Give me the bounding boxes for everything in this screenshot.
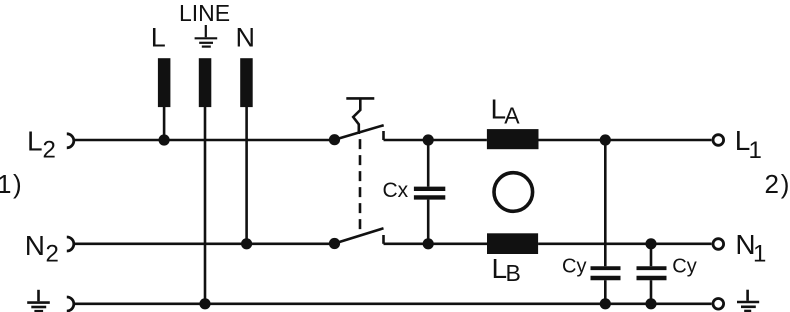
label Cx — [383, 179, 409, 202]
ground symbol (LINE earth, top) — [195, 25, 218, 47]
terminal circle L1 — [713, 135, 724, 146]
fuse/terminal bar PE — [199, 58, 212, 107]
junction dot Cx top — [423, 134, 434, 145]
wire switch a to inductor LA — [384, 139, 487, 142]
wire LA to L1 terminal — [539, 139, 712, 142]
fuse/terminal bar N — [240, 58, 253, 107]
wire switch b to inductor LB — [384, 243, 488, 246]
ground symbol bottom left — [27, 290, 50, 311]
svg-text:2: 2 — [46, 241, 59, 268]
junction dot Cy2 ground — [645, 298, 656, 309]
junction dot switch pole a — [329, 134, 340, 145]
capacitor Cy1 — [591, 268, 621, 278]
fuse/terminal bar L — [158, 58, 171, 107]
junction dot Cy2 top on N line — [645, 238, 656, 249]
wire bar PE down to ground bus — [204, 107, 207, 304]
terminal circle N1 — [713, 239, 724, 250]
wire bar L to L2 line — [163, 107, 166, 140]
switch S1 pole a fixed contact — [382, 131, 385, 140]
label 2) — [765, 169, 790, 199]
inductor LB — [487, 233, 538, 254]
terminal label L (input) — [151, 22, 166, 52]
label L2 — [27, 125, 56, 163]
wire Cx lower lead — [427, 200, 430, 244]
svg-text:B: B — [506, 260, 521, 286]
terminal arc L2 — [67, 134, 74, 148]
terminal circle ground (right) — [713, 299, 724, 310]
wire N2 line — [74, 243, 335, 246]
svg-text:1: 1 — [749, 137, 762, 164]
junction dot N bar on N2 line — [241, 238, 252, 249]
svg-text:1: 1 — [753, 240, 766, 267]
terminal arc ground (left) — [67, 297, 74, 311]
svg-text:N: N — [25, 230, 45, 261]
svg-text:1: 1 — [0, 169, 11, 199]
wire ground bus — [74, 302, 712, 305]
junction dot Cx bottom — [423, 238, 434, 249]
inductor LA — [487, 129, 539, 149]
label LB — [492, 253, 521, 286]
junction dot Cy1 top on L line — [600, 134, 611, 145]
svg-text:Cy: Cy — [562, 255, 586, 277]
switch S1 pole b blade — [335, 228, 384, 243]
label N1 — [735, 229, 766, 267]
junction dot PE bar on ground bus — [199, 298, 210, 309]
terminal arc N2 — [67, 237, 74, 251]
capacitor Cy2 — [637, 268, 667, 278]
wire LB to N1 terminal — [538, 243, 711, 246]
wire L2 line — [74, 139, 335, 142]
label N2 — [25, 230, 59, 268]
wire Cy2 lower lead — [650, 280, 653, 304]
label Cy right — [672, 255, 696, 277]
svg-text:Cy: Cy — [672, 255, 696, 277]
svg-text:LINE: LINE — [179, 0, 230, 26]
svg-text:L: L — [27, 125, 43, 156]
svg-text:): ) — [13, 169, 22, 199]
svg-text:): ) — [781, 169, 790, 199]
junction dot Cy1 ground — [600, 298, 611, 309]
junction dot L bar on L2 line — [159, 134, 170, 145]
label LINE — [179, 0, 230, 26]
capacitor Cx — [414, 189, 445, 198]
terminal label N (input) — [236, 22, 256, 52]
svg-text:2: 2 — [43, 137, 56, 164]
switch S1 pole b fixed contact — [382, 235, 385, 244]
svg-text:N: N — [236, 22, 256, 52]
label L1 — [735, 125, 762, 164]
label LA — [491, 94, 521, 129]
wire Cy2 upper lead — [650, 244, 653, 266]
wire Cx upper lead — [427, 140, 430, 187]
junction dot switch pole b — [329, 238, 340, 249]
switch S1 pole a blade — [335, 125, 384, 140]
svg-text:A: A — [504, 102, 520, 128]
ground symbol bottom right — [737, 290, 759, 311]
svg-text:2: 2 — [765, 169, 779, 199]
label Cy left — [562, 255, 586, 277]
svg-text:L: L — [151, 22, 166, 52]
svg-text:Cx: Cx — [383, 179, 409, 202]
switch S1 actuator handle and zigzag — [346, 98, 374, 134]
wire bar N down to N2 line — [245, 107, 248, 244]
switch S1 mechanical link (dashed) — [359, 139, 362, 229]
wire Cy1 upper lead — [604, 140, 607, 266]
common-mode choke core circle — [494, 173, 533, 212]
wire Cy1 lower lead — [604, 280, 607, 304]
label 1) — [0, 169, 22, 199]
